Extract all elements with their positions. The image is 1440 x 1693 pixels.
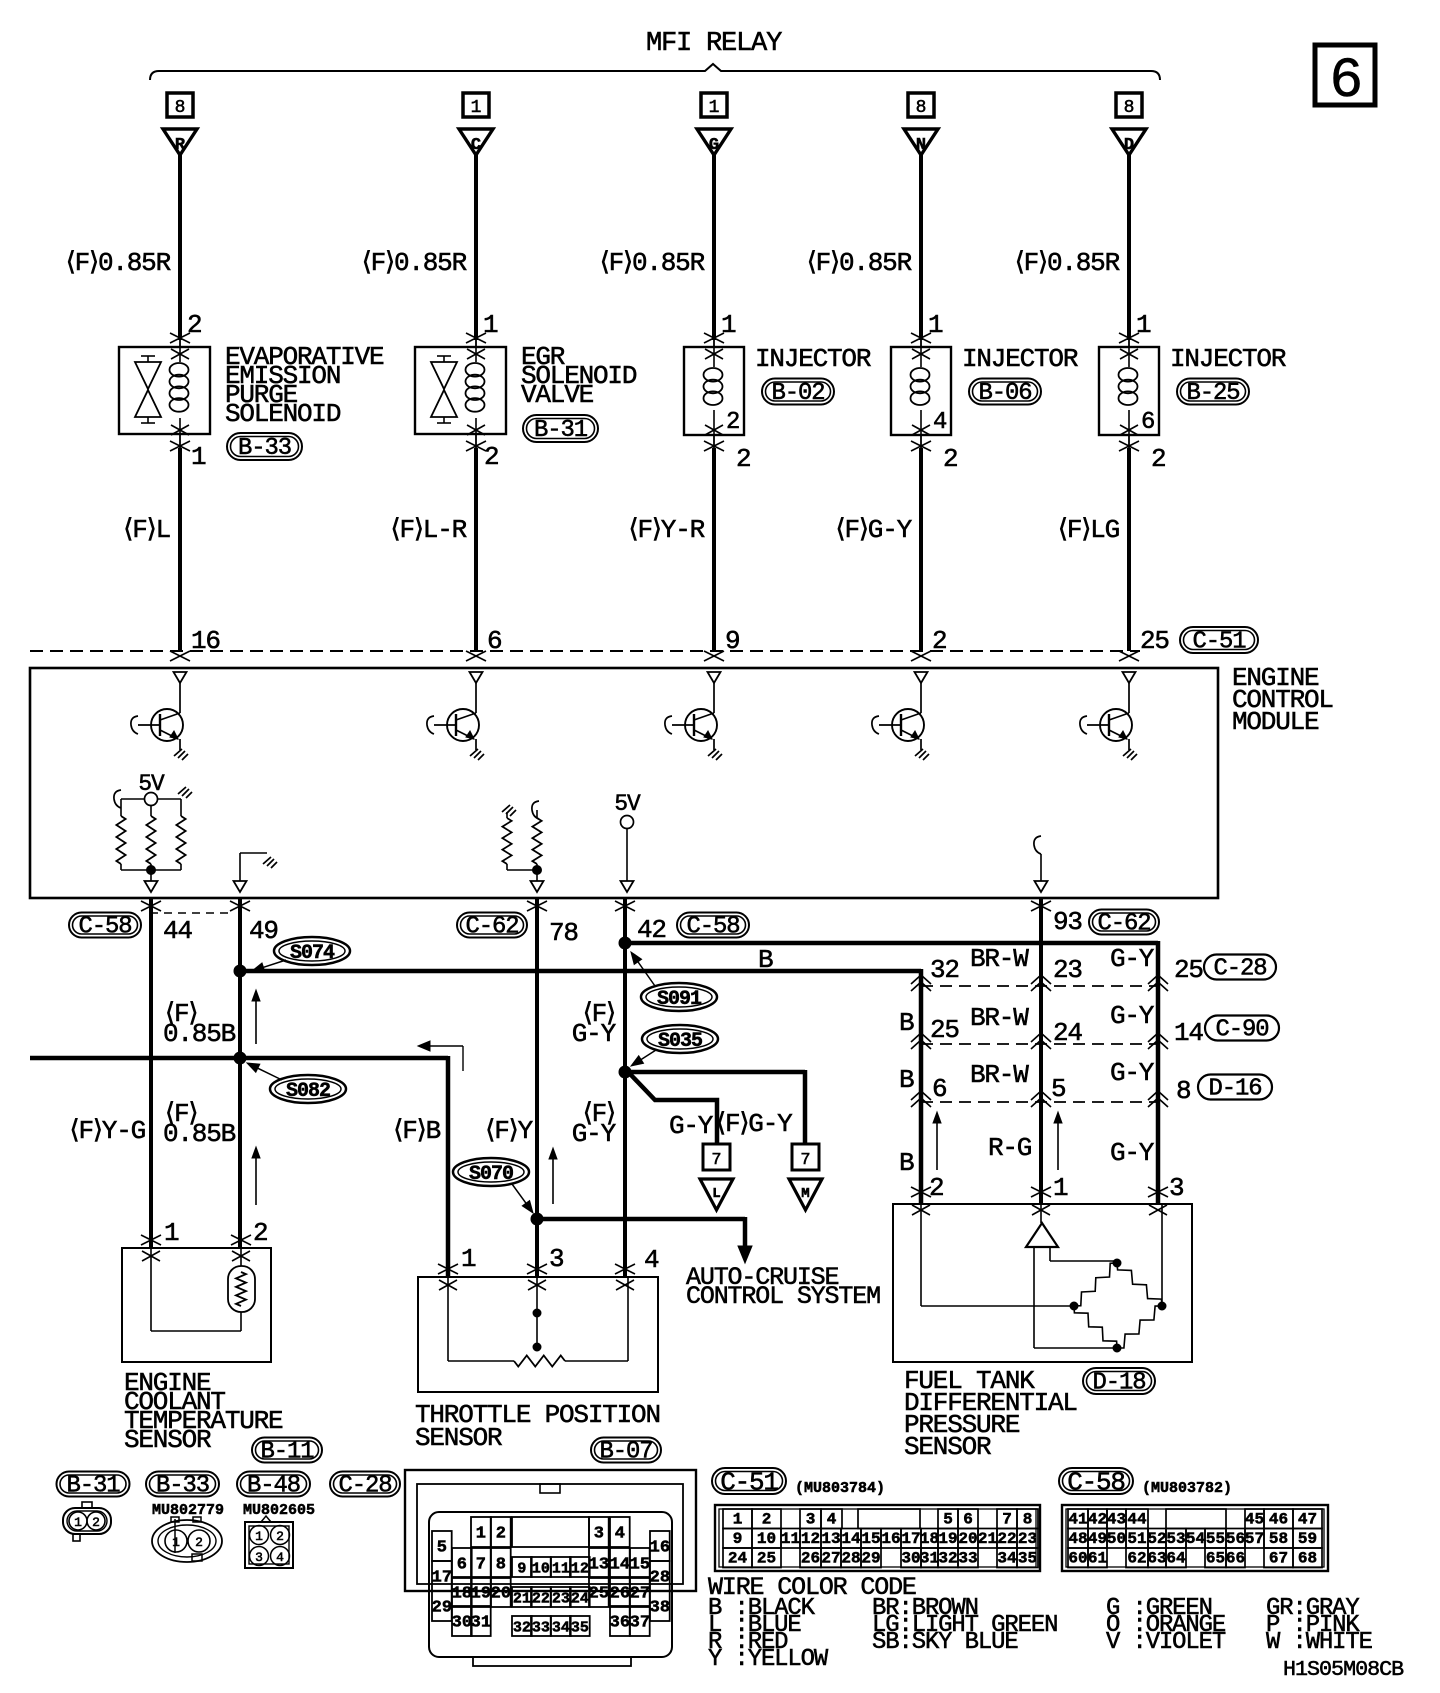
splice S035 — [642, 1025, 718, 1053]
svg-text:SENSOR: SENSOR — [124, 1425, 211, 1455]
C-58 pin grid — [1062, 1505, 1328, 1571]
svg-text:S074: S074 — [290, 942, 335, 965]
svg-text:32: 32 — [938, 1550, 957, 1568]
connector ref C-51 (ECM row) — [1180, 627, 1258, 653]
svg-text:4: 4 — [276, 1550, 284, 1565]
dashed pair link 44-49 — [150, 912, 234, 914]
svg-text:44: 44 — [163, 916, 192, 946]
svg-text:SB:SKY BLUE: SB:SKY BLUE — [872, 1629, 1018, 1656]
svg-text:50: 50 — [1107, 1530, 1126, 1548]
connector ref C-28 (bottom) — [330, 1472, 400, 1497]
svg-text:SENSOR: SENSOR — [904, 1432, 991, 1462]
ground (pull-up network) — [178, 787, 192, 798]
svg-text:1: 1 — [1053, 1173, 1068, 1203]
svg-text:9: 9 — [733, 1530, 743, 1548]
junction S091 on wire 42 — [619, 937, 631, 949]
svg-text:54: 54 — [1186, 1530, 1206, 1548]
B-07 cavity numbers — [471, 1517, 491, 1547]
svg-text:4: 4 — [933, 409, 947, 436]
svg-text:⟨F⟩G-Y: ⟨F⟩G-Y — [836, 515, 913, 545]
svg-text:2: 2 — [1151, 444, 1165, 474]
svg-text:(MU803784): (MU803784) — [795, 1480, 885, 1497]
svg-text:C-58: C-58 — [687, 914, 740, 941]
svg-text:66: 66 — [1226, 1550, 1245, 1568]
svg-text:1: 1 — [191, 442, 206, 472]
svg-text:12: 12 — [801, 1530, 820, 1548]
driver transistor Q3 — [708, 672, 721, 683]
driver transistor Q4 — [915, 672, 928, 683]
svg-text:G-Y: G-Y — [1110, 1058, 1155, 1088]
MFI relay terminal box 8 (column 5) — [1116, 93, 1142, 117]
svg-text:32: 32 — [513, 1620, 531, 1637]
svg-text:8: 8 — [1124, 98, 1135, 118]
svg-text:⟨F⟩LG: ⟨F⟩LG — [1058, 515, 1119, 545]
wire 49 — [230, 901, 250, 911]
svg-text:9: 9 — [517, 1561, 526, 1578]
svg-text:64: 64 — [1166, 1550, 1186, 1568]
wire 44 (F)0.85B — [141, 901, 161, 911]
svg-text:4: 4 — [827, 1511, 837, 1529]
wire ⟨F⟩Y-R column 3 — [713, 434, 715, 448]
junction S082 on wire 49 — [234, 1052, 246, 1064]
svg-text:L: L — [712, 1186, 720, 1202]
svg-text:2: 2 — [736, 444, 750, 474]
crossing marks y=986 — [911, 975, 931, 991]
svg-text:6: 6 — [457, 1556, 467, 1575]
ground (emitter Q1) — [174, 749, 188, 760]
thermistor symbol — [228, 1266, 255, 1312]
svg-text:0.85B: 0.85B — [163, 1019, 236, 1049]
connector ref B-33 — [227, 433, 302, 460]
svg-text:1: 1 — [164, 1218, 179, 1248]
EGR solenoid valve B-31 — [415, 347, 506, 434]
svg-text:⟨F⟩0.85R: ⟨F⟩0.85R — [362, 248, 467, 278]
svg-text:68: 68 — [1298, 1550, 1317, 1568]
wire (F)Y-G from off-page to S082 — [30, 1056, 240, 1061]
svg-text:44: 44 — [1127, 1511, 1147, 1529]
connector ref B-48 (bottom) — [237, 1472, 310, 1497]
svg-text:34: 34 — [552, 1620, 570, 1637]
svg-text:18: 18 — [452, 1585, 472, 1604]
svg-text:24: 24 — [1053, 1018, 1082, 1048]
svg-text:G-Y: G-Y — [1110, 1138, 1155, 1168]
svg-text:6: 6 — [1141, 409, 1154, 436]
svg-text:(MU803782): (MU803782) — [1142, 1480, 1232, 1497]
junction (resistor bottoms, pin 44) — [147, 866, 156, 875]
svg-text:23: 23 — [1018, 1530, 1037, 1548]
evaporative emission purge solenoid B-33 — [119, 347, 210, 434]
engine control module box — [30, 668, 1218, 898]
svg-text:BR-W: BR-W — [970, 1003, 1029, 1033]
svg-text:29: 29 — [432, 1599, 452, 1618]
B-07 connector face — [405, 1470, 696, 1591]
svg-text:53: 53 — [1166, 1530, 1185, 1548]
connector ref D-18 — [1083, 1368, 1155, 1394]
splice S074 — [274, 937, 350, 965]
svg-text:0.85B: 0.85B — [163, 1119, 236, 1149]
svg-text:7: 7 — [800, 1151, 810, 1170]
wire (F)0.85R column 3 — [712, 155, 716, 340]
svg-text:5V: 5V — [614, 791, 641, 817]
svg-text:17: 17 — [901, 1530, 920, 1548]
ground (emitter Q5) — [1123, 749, 1137, 760]
svg-text:67: 67 — [1269, 1550, 1288, 1568]
svg-text:SOLENOID: SOLENOID — [225, 399, 341, 429]
svg-text:S035: S035 — [658, 1030, 702, 1053]
svg-text:26: 26 — [801, 1550, 820, 1568]
svg-text:25: 25 — [589, 1585, 609, 1604]
svg-text:12: 12 — [571, 1561, 589, 1578]
svg-text:1: 1 — [1136, 310, 1151, 340]
svg-text:93: 93 — [1053, 907, 1082, 937]
svg-text:1: 1 — [471, 98, 482, 118]
svg-text:S070: S070 — [469, 1163, 513, 1186]
direction arrow (wire 49 up) — [255, 994, 257, 1044]
B-31 connector face — [63, 1508, 111, 1534]
svg-text:27: 27 — [630, 1585, 650, 1604]
svg-text:⟨F⟩Y-G: ⟨F⟩Y-G — [70, 1116, 146, 1146]
svg-text:C-58: C-58 — [1067, 1467, 1125, 1497]
svg-text:G-Y: G-Y — [1110, 1001, 1155, 1031]
svg-text:1: 1 — [733, 1511, 743, 1529]
svg-text:B-02: B-02 — [772, 380, 825, 407]
svg-text:BR-W: BR-W — [970, 1060, 1029, 1090]
svg-text:C-51: C-51 — [1193, 629, 1247, 656]
connector ref B-02 — [762, 379, 834, 405]
svg-text:14: 14 — [1174, 1018, 1203, 1048]
junction S074 on wire 49 — [234, 965, 246, 977]
MFI relay terminal box 1 (column 3) — [701, 93, 727, 117]
svg-text:41: 41 — [1068, 1511, 1087, 1529]
pull-up resistors R1 R2 R3 — [120, 799, 122, 816]
splice S082 — [270, 1075, 346, 1103]
svg-text:B-06: B-06 — [979, 380, 1032, 407]
svg-text:2: 2 — [253, 1218, 267, 1248]
svg-text:62: 62 — [1127, 1550, 1146, 1568]
svg-text:23: 23 — [1053, 955, 1082, 985]
MFI relay connector triangle R — [163, 129, 197, 155]
off-page continuation arrow — [462, 1046, 464, 1071]
svg-text:2: 2 — [496, 1525, 506, 1544]
svg-text:43: 43 — [1107, 1511, 1126, 1529]
svg-text:16: 16 — [650, 1539, 670, 1558]
svg-text:27: 27 — [821, 1550, 840, 1568]
svg-text:51: 51 — [1127, 1530, 1146, 1548]
svg-text:2: 2 — [726, 409, 739, 436]
svg-text:7: 7 — [476, 1556, 486, 1575]
svg-text:2: 2 — [943, 444, 957, 474]
connector triangle L (auto-cruise) — [700, 1179, 733, 1210]
wire 42 (F)G-Y — [615, 901, 635, 911]
ground (emitter Q2) — [470, 749, 484, 760]
svg-text:25: 25 — [757, 1550, 776, 1568]
svg-text:42: 42 — [1088, 1511, 1107, 1529]
svg-text:G-Y: G-Y — [669, 1111, 714, 1141]
wire 93 R-G — [1031, 901, 1051, 911]
splice S070 — [453, 1158, 529, 1186]
svg-text:22: 22 — [997, 1530, 1016, 1548]
svg-text:65: 65 — [1206, 1550, 1225, 1568]
svg-text:8: 8 — [496, 1556, 506, 1575]
svg-text:BR-W: BR-W — [970, 944, 1029, 974]
svg-text:G-Y: G-Y — [572, 1019, 617, 1049]
MFI relay terminal box 8 (column 1) — [167, 93, 193, 117]
direction arrow (wire 49 lower) — [255, 1151, 257, 1205]
svg-text:13: 13 — [821, 1530, 840, 1548]
ground (emitter Q4) — [915, 749, 929, 760]
svg-text:W :WHITE: W :WHITE — [1266, 1629, 1373, 1656]
svg-text:MU802779: MU802779 — [152, 1502, 224, 1519]
wire B from S091 to D-16 column — [625, 941, 1158, 946]
svg-text:S082: S082 — [286, 1080, 330, 1103]
svg-text:1: 1 — [928, 310, 943, 340]
wire to auto-cruise control system — [537, 1217, 745, 1222]
wire ⟨F⟩G-Y column 4 — [920, 434, 922, 448]
direction arrows (sensor feeds) — [936, 1116, 938, 1170]
svg-text:4: 4 — [644, 1245, 659, 1275]
svg-text:19: 19 — [938, 1530, 957, 1548]
svg-text:78: 78 — [549, 918, 578, 948]
svg-text:B-48: B-48 — [247, 1473, 300, 1500]
injector B-25 — [1099, 347, 1159, 435]
svg-text:D: D — [1124, 136, 1134, 155]
svg-text:11: 11 — [781, 1530, 800, 1548]
svg-text:⟨F⟩0.85R: ⟨F⟩0.85R — [66, 248, 171, 278]
svg-text:2: 2 — [187, 310, 201, 340]
svg-text:2: 2 — [484, 442, 498, 472]
svg-text:⟨F⟩Y: ⟨F⟩Y — [485, 1116, 533, 1146]
svg-text:2: 2 — [276, 1529, 284, 1544]
svg-text:INJECTOR: INJECTOR — [755, 344, 871, 374]
svg-text:3: 3 — [594, 1525, 604, 1544]
svg-text:2: 2 — [929, 1173, 943, 1203]
grid dashed separator row 2 — [921, 1043, 1158, 1045]
MFI relay bracket — [150, 64, 1160, 80]
MFI relay connector triangle D — [1112, 129, 1146, 155]
connector ref C-62 (pin 78) — [457, 913, 527, 938]
wire (F)G-Y to auto-cruise M — [625, 1070, 805, 1075]
svg-text:7: 7 — [1002, 1511, 1012, 1529]
wire ⟨F⟩L-R column 2 — [475, 434, 477, 448]
connector ref C-58 (bottom) — [1059, 1468, 1133, 1494]
svg-text:35: 35 — [571, 1620, 589, 1637]
svg-text:60: 60 — [1068, 1550, 1087, 1568]
svg-text:⟨F⟩L: ⟨F⟩L — [123, 515, 170, 545]
svg-text:B-33: B-33 — [238, 435, 291, 462]
svg-text:B-31: B-31 — [67, 1473, 121, 1500]
bias resistors (pin 78, TPS) — [502, 805, 516, 816]
driver transistor Q5 — [1123, 672, 1136, 683]
svg-text:14: 14 — [610, 1556, 630, 1575]
svg-text:25: 25 — [1174, 955, 1203, 985]
svg-text:6: 6 — [963, 1511, 973, 1529]
svg-text:C-62: C-62 — [1098, 911, 1151, 938]
svg-text:5: 5 — [943, 1511, 953, 1529]
svg-text:38: 38 — [650, 1599, 670, 1618]
svg-text:37: 37 — [630, 1614, 650, 1633]
svg-text:3: 3 — [255, 1550, 263, 1565]
svg-text:18: 18 — [920, 1530, 939, 1548]
grid dashed separator row 3 — [921, 1101, 1158, 1103]
svg-text:3: 3 — [806, 1511, 816, 1529]
connector ref B-06 — [969, 379, 1041, 405]
svg-text:VALVE: VALVE — [521, 380, 594, 410]
svg-text:14: 14 — [841, 1530, 861, 1548]
svg-text:30: 30 — [452, 1614, 472, 1633]
MFI relay connector triangle N — [904, 129, 938, 155]
svg-text:30: 30 — [901, 1550, 920, 1568]
svg-text:G-Y: G-Y — [1110, 944, 1155, 974]
svg-text:8: 8 — [1023, 1511, 1033, 1529]
svg-text:C: C — [471, 136, 481, 155]
svg-text:33: 33 — [532, 1620, 550, 1637]
svg-text:N: N — [916, 136, 926, 155]
svg-text:2: 2 — [92, 1515, 100, 1530]
connector ref B-33 (bottom) — [146, 1472, 219, 1497]
svg-text:⟨F⟩0.85R: ⟨F⟩0.85R — [807, 248, 912, 278]
crossing marks y=1044 — [911, 1033, 931, 1049]
svg-text:R: R — [175, 136, 186, 155]
svg-text:V :VIOLET: V :VIOLET — [1106, 1629, 1226, 1656]
driver transistor Q1 — [174, 672, 187, 683]
svg-text:MFI RELAY: MFI RELAY — [646, 28, 782, 59]
svg-text:17: 17 — [432, 1569, 452, 1588]
svg-text:B-31: B-31 — [534, 417, 588, 444]
svg-text:32: 32 — [930, 955, 959, 985]
terminal box 7 (M) — [792, 1144, 819, 1170]
svg-text:B: B — [758, 945, 773, 975]
svg-text:5: 5 — [1051, 1074, 1065, 1104]
svg-text:C-62: C-62 — [466, 914, 519, 941]
svg-text:8: 8 — [175, 98, 186, 118]
svg-text:23: 23 — [552, 1591, 570, 1608]
svg-text:24: 24 — [571, 1591, 589, 1608]
svg-text:52: 52 — [1147, 1530, 1166, 1548]
svg-text:1: 1 — [461, 1244, 476, 1274]
bridge circuit — [1033, 1247, 1035, 1348]
svg-text:1: 1 — [476, 1525, 486, 1544]
svg-text:3: 3 — [549, 1244, 563, 1274]
svg-text:42: 42 — [637, 915, 666, 945]
svg-text:16: 16 — [881, 1530, 900, 1548]
svg-text:22: 22 — [532, 1591, 550, 1608]
svg-text:10: 10 — [757, 1530, 776, 1548]
connector ref C-51 (bottom) — [712, 1468, 786, 1494]
svg-text:19: 19 — [471, 1585, 491, 1604]
svg-text:5: 5 — [437, 1539, 447, 1558]
svg-text:MU802605: MU802605 — [243, 1502, 315, 1519]
wire B from S074 to fuel sensor pin 2 — [240, 969, 921, 974]
svg-text:25: 25 — [930, 1015, 959, 1045]
svg-text:21: 21 — [513, 1591, 531, 1608]
svg-text:B-33: B-33 — [156, 1473, 209, 1500]
svg-text:2: 2 — [195, 1535, 203, 1550]
svg-text:21: 21 — [978, 1530, 997, 1548]
wire ⟨F⟩LG column 5 — [1128, 434, 1130, 448]
svg-text:46: 46 — [1269, 1511, 1288, 1529]
svg-text:1: 1 — [709, 98, 720, 118]
svg-text:B: B — [899, 1008, 914, 1038]
junction S070 on wire 78 — [531, 1213, 543, 1225]
svg-text:C-58: C-58 — [79, 914, 132, 941]
svg-text:49: 49 — [249, 916, 278, 946]
B-48 connector face — [245, 1522, 293, 1568]
connector ref B-25 — [1177, 379, 1249, 405]
svg-text:B-25: B-25 — [1187, 380, 1240, 407]
svg-text:CONTROL SYSTEM: CONTROL SYSTEM — [686, 1282, 880, 1311]
svg-text:6: 6 — [1329, 49, 1360, 113]
svg-text:63: 63 — [1147, 1550, 1166, 1568]
connector triangle M (auto-cruise) — [789, 1179, 822, 1210]
svg-text:B: B — [899, 1065, 914, 1095]
wire (F)0.85R column 2 — [474, 155, 478, 340]
svg-text:7: 7 — [711, 1151, 721, 1170]
injector B-06 — [891, 347, 951, 435]
svg-text:MODULE: MODULE — [1232, 707, 1319, 737]
svg-text:24: 24 — [728, 1550, 748, 1568]
page number 6 box — [1315, 45, 1375, 105]
wire (F)0.85R column 1 — [178, 155, 182, 340]
svg-text:1: 1 — [172, 1535, 180, 1550]
amplifier triangle — [1026, 1223, 1058, 1247]
svg-text:B-07: B-07 — [600, 1439, 653, 1466]
injector B-02 — [684, 347, 744, 435]
svg-text:31: 31 — [471, 1614, 491, 1633]
svg-text:26: 26 — [610, 1585, 630, 1604]
MFI relay terminal box 8 (column 4) — [908, 93, 934, 117]
MFI relay connector triangle C — [459, 129, 493, 155]
ground (emitter Q3) — [708, 749, 722, 760]
svg-text:1: 1 — [74, 1515, 82, 1530]
connector ref B-31 (bottom) — [57, 1472, 130, 1497]
svg-text:C-90: C-90 — [1216, 1017, 1269, 1044]
svg-text:29: 29 — [861, 1550, 880, 1568]
wire (F)B to throttle position sensor pin 1 — [240, 1056, 448, 1061]
svg-text:D-18: D-18 — [1093, 1370, 1146, 1397]
svg-text:28: 28 — [650, 1569, 670, 1588]
connector ref C-58 (pin 42) — [677, 913, 749, 938]
C-51 pin grid — [715, 1505, 1040, 1571]
fuel tank differential pressure sensor D-18 — [893, 1204, 1192, 1362]
svg-text:61: 61 — [1088, 1550, 1107, 1568]
svg-text:8: 8 — [1176, 1076, 1190, 1106]
svg-text:C-28: C-28 — [1214, 956, 1267, 983]
svg-text:H1S05M08CB: H1S05M08CB — [1283, 1657, 1404, 1682]
svg-text:20: 20 — [491, 1585, 511, 1604]
connector ref B-31 — [523, 415, 598, 442]
svg-text:1: 1 — [721, 310, 736, 340]
internal link (pin 49) — [239, 853, 241, 881]
junction (pin 78 resistors) — [533, 866, 542, 875]
svg-text:SENSOR: SENSOR — [415, 1423, 502, 1453]
throttle position sensor B-07 — [418, 1277, 658, 1392]
internal lead (pin 93) — [1034, 836, 1041, 854]
svg-text:45: 45 — [1245, 1511, 1264, 1529]
svg-text:6: 6 — [932, 1074, 946, 1104]
svg-text:47: 47 — [1298, 1511, 1317, 1529]
driver transistor Q2 — [470, 672, 483, 683]
svg-text:25: 25 — [1140, 626, 1169, 656]
svg-text:10: 10 — [532, 1561, 550, 1578]
svg-text:S091: S091 — [657, 988, 702, 1011]
svg-text:G: G — [709, 136, 719, 155]
svg-text:⟨F⟩Y-R: ⟨F⟩Y-R — [629, 515, 705, 545]
engine coolant temperature sensor — [122, 1248, 271, 1362]
MFI relay terminal box 1 (column 2) — [463, 93, 489, 117]
svg-text:13: 13 — [589, 1556, 609, 1575]
wire (F)0.85R column 4 — [919, 155, 923, 340]
connector ref C-62 (pin 93) — [1089, 910, 1159, 935]
